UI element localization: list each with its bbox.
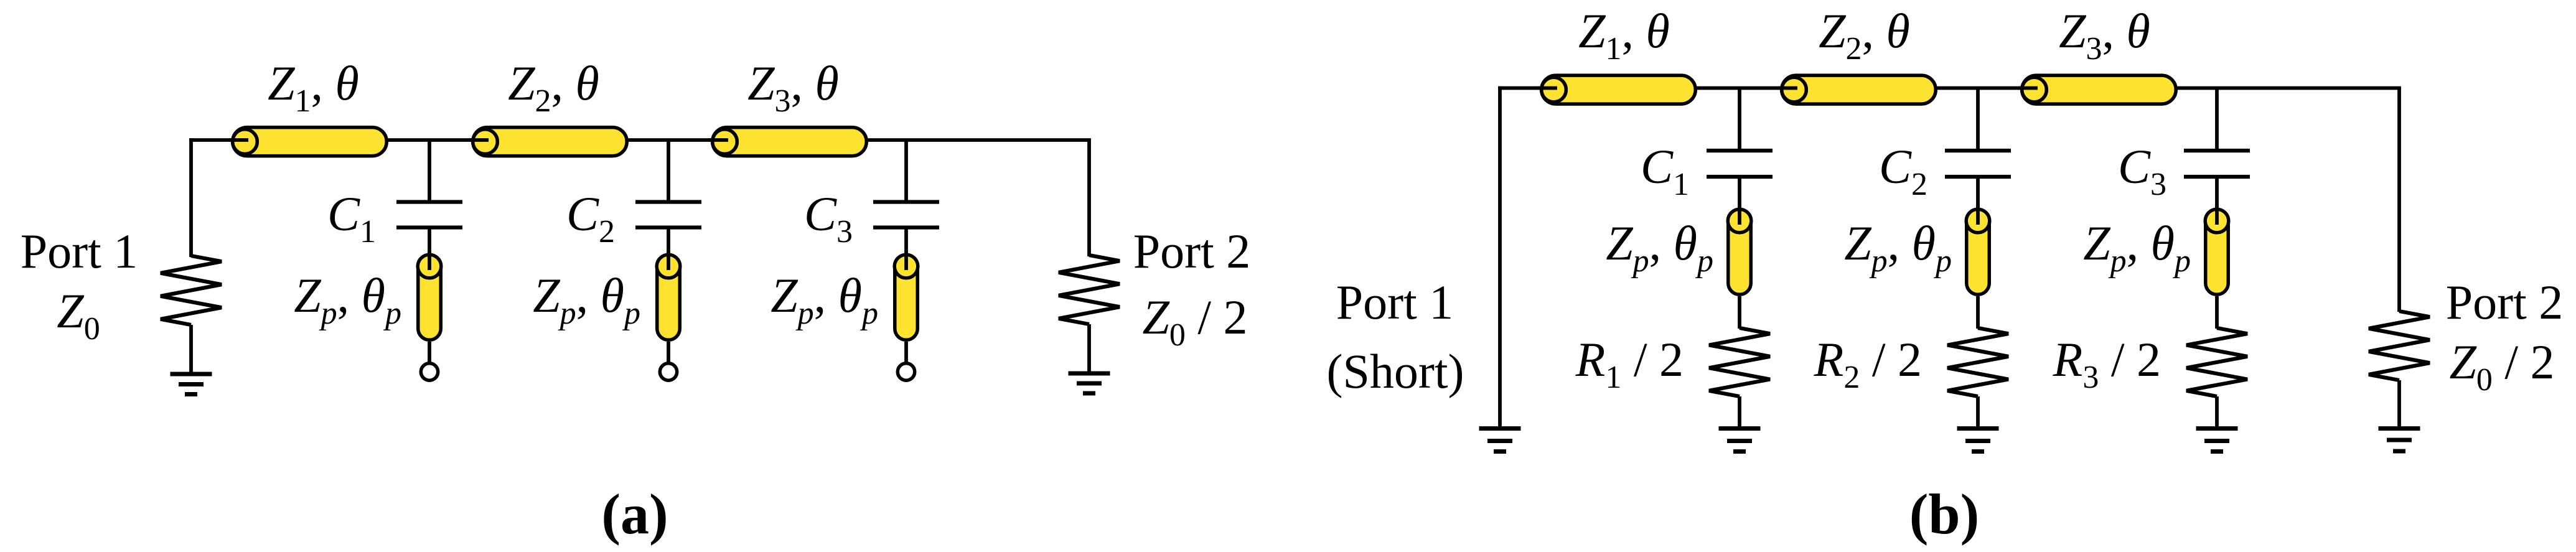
- value label C2 (b): [1879, 139, 1927, 202]
- value label Z1, theta (b): [1578, 4, 1670, 67]
- svg-text:Z2​, θ: Z2​, θ: [1819, 4, 1910, 67]
- wire: stub 1 to open end (a): [428, 342, 431, 370]
- ground at Port 2 (b): [2379, 429, 2420, 452]
- svg-text:Z3​, θ: Z3​, θ: [2059, 4, 2150, 67]
- capacitor C1 (a): [396, 202, 462, 228]
- wire: stub 3 to resistor R3/2 (b): [2215, 296, 2219, 329]
- svg-text:(a): (a): [601, 482, 668, 546]
- value label Z0 at Port 1 (a): [57, 284, 100, 347]
- series stub Zp branch 1 (b): [1728, 206, 1751, 294]
- value label C2 (a): [566, 187, 615, 250]
- wire: Port 1 (a) vertical lead: [189, 138, 193, 257]
- capacitor C2 (a): [635, 202, 701, 228]
- open-circuited stub Zp branch 1 (a): [418, 251, 441, 340]
- wire: Port 1 (a) resistor to ground: [189, 325, 193, 373]
- ground at Port 2 (a): [1069, 373, 1110, 393]
- wire: Port 2 (b) resistor to ground: [2397, 380, 2401, 426]
- series stub Zp branch 3 (b): [2205, 206, 2229, 294]
- value label C3 (b): [2118, 139, 2166, 202]
- resistor Z0/2 at Port 2 (a): [1059, 255, 1120, 324]
- svg-text:Z0​ / 2: Z0​ / 2: [1142, 290, 1247, 353]
- value label Z0/2 at Port 2 (b): [2449, 335, 2554, 398]
- wire: junction node 1 (b) down to capacitor C1: [1738, 88, 1741, 150]
- resistor Z0 at Port 1 (a): [161, 256, 222, 325]
- wire: junction node 3 (b) down to capacitor C3: [2215, 88, 2219, 150]
- svg-text:(Short): (Short): [1327, 344, 1464, 398]
- value label Zp, thetap branch 1 (a): [294, 268, 401, 331]
- svg-text:(b): (b): [1909, 482, 1979, 546]
- wire: junction node 2 (a) down to capacitor C2: [667, 140, 670, 200]
- ground at Port 1 (a): [171, 374, 212, 395]
- node label Port 2 (b): [2446, 275, 2564, 329]
- svg-text:Z1​, θ: Z1​, θ: [1578, 4, 1670, 67]
- value label Zp, thetap branch 3 (b): [2083, 216, 2191, 279]
- open-circuited stub Zp branch 3 (a): [894, 251, 918, 340]
- wire: resistor R3/2 to ground (b): [2215, 396, 2219, 426]
- svg-text:Port 2: Port 2: [1133, 224, 1251, 278]
- open-circuited stub Zp branch 2 (a): [657, 251, 680, 340]
- value label C1 (a): [327, 187, 376, 250]
- transmission line Z2, theta (b): [1778, 75, 1936, 104]
- wire: capacitor C3 to stub (b): [2215, 177, 2219, 211]
- wire: capacitor C1 to stub (a): [428, 228, 431, 257]
- wire: stub 1 to resistor R1/2 (b): [1738, 296, 1741, 329]
- value label R2/2 (b): [1814, 332, 1922, 395]
- capacitor C3 (b): [2184, 151, 2250, 177]
- value label Zp, thetap branch 2 (a): [533, 268, 640, 331]
- wire: stub 3 to open end (a): [904, 342, 908, 370]
- svg-text:R1​ / 2: R1​ / 2: [1575, 332, 1684, 395]
- svg-text:Port 2: Port 2: [2446, 275, 2564, 329]
- open-circuit terminal branch 3 (a): [897, 363, 914, 380]
- svg-text:R2​ / 2: R2​ / 2: [1814, 332, 1922, 395]
- transmission line Z3, theta (b): [2018, 75, 2176, 104]
- value label R3/2 (b): [2053, 332, 2161, 395]
- resistor R3/2 (b): [2186, 328, 2247, 396]
- node label Port 1 (b): [1336, 275, 1454, 329]
- node label (Short) at Port 1 (b): [1327, 344, 1464, 398]
- svg-text:Z2​, θ: Z2​, θ: [508, 56, 599, 119]
- wire: circuit (b) main line from Port 1 to Port 2: [1498, 87, 2401, 90]
- value label Z0/2 at Port 2 (a): [1142, 290, 1247, 353]
- value label Z3, theta (a): [747, 56, 839, 119]
- ground at branch 1 (b): [1719, 429, 1761, 452]
- wire: Port 2 (b) vertical lead: [2397, 88, 2401, 312]
- transmission line Z1, theta (a): [229, 128, 386, 156]
- node label Port 1 (a): [21, 224, 138, 278]
- wire: Port 1 (b) vertical lead (short): [1498, 87, 1502, 427]
- wire: Port 2 (a) resistor to ground: [1087, 324, 1091, 373]
- ground at branch 2 (b): [1957, 429, 1999, 452]
- open-circuit terminal branch 2 (a): [660, 363, 677, 380]
- wire: junction node 1 (a) down to capacitor C1: [428, 140, 431, 200]
- value label Z2, theta (a): [508, 56, 599, 119]
- resistor R1/2 (b): [1709, 328, 1770, 396]
- value label Zp, thetap branch 3 (a): [770, 268, 878, 331]
- capacitor C2 (b): [1945, 151, 2011, 177]
- wire: capacitor C1 to stub (b): [1738, 177, 1741, 211]
- value label C1 (b): [1641, 139, 1689, 202]
- caption (a): [601, 482, 668, 546]
- transmission line Z1, theta (b): [1538, 75, 1695, 104]
- wire: capacitor C2 to stub (b): [1976, 177, 1980, 211]
- value label C3 (a): [804, 187, 853, 250]
- wire: capacitor C2 to stub (a): [667, 228, 670, 257]
- capacitor C3 (a): [873, 202, 939, 228]
- wire: junction node 2 (b) down to capacitor C2: [1976, 88, 1980, 150]
- wire: junction node 3 (a) down to capacitor C3: [904, 140, 908, 200]
- svg-text:Port 1: Port 1: [1336, 275, 1454, 329]
- value label Z2, theta (b): [1819, 4, 1910, 67]
- caption (b): [1909, 482, 1979, 546]
- wire: stub 2 to open end (a): [667, 342, 670, 370]
- value label Zp, thetap branch 1 (b): [1606, 216, 1713, 279]
- capacitor C1 (b): [1707, 151, 1773, 177]
- wire: stub 2 to resistor R2/2 (b): [1976, 296, 1980, 329]
- series stub Zp branch 2 (b): [1966, 206, 1990, 294]
- wire: Port 2 (a) vertical lead: [1087, 140, 1091, 256]
- value label Z1, theta (a): [268, 56, 359, 119]
- svg-text:R3​ / 2: R3​ / 2: [2053, 332, 2161, 395]
- ground at Port 1 (b): [1479, 429, 1521, 452]
- value label Zp, thetap branch 2 (b): [1844, 216, 1952, 279]
- transmission line Z2, theta (a): [469, 128, 627, 156]
- svg-text:Z3​, θ: Z3​, θ: [747, 56, 839, 119]
- open-circuit terminal branch 1 (a): [421, 363, 438, 380]
- resistor Z0/2 at Port 2 (b): [2369, 311, 2430, 380]
- transmission line Z3, theta (a): [709, 128, 866, 156]
- resistor R2/2 (b): [1947, 328, 2008, 396]
- svg-text:Port 1: Port 1: [21, 224, 138, 278]
- wire: resistor R2/2 to ground (b): [1976, 396, 1980, 426]
- value label R1/2 (b): [1575, 332, 1684, 395]
- svg-text:Z1​, θ: Z1​, θ: [268, 56, 359, 119]
- node label Port 2 (a): [1133, 224, 1251, 278]
- svg-text:Z0​ / 2: Z0​ / 2: [2449, 335, 2554, 398]
- wire: resistor R1/2 to ground (b): [1738, 396, 1741, 426]
- value label Z3, theta (b): [2059, 4, 2150, 67]
- wire: circuit (a) main line from Port 1 to Port 2: [189, 138, 1091, 142]
- wire: capacitor C3 to stub (a): [904, 228, 908, 257]
- ground at branch 3 (b): [2196, 429, 2238, 452]
